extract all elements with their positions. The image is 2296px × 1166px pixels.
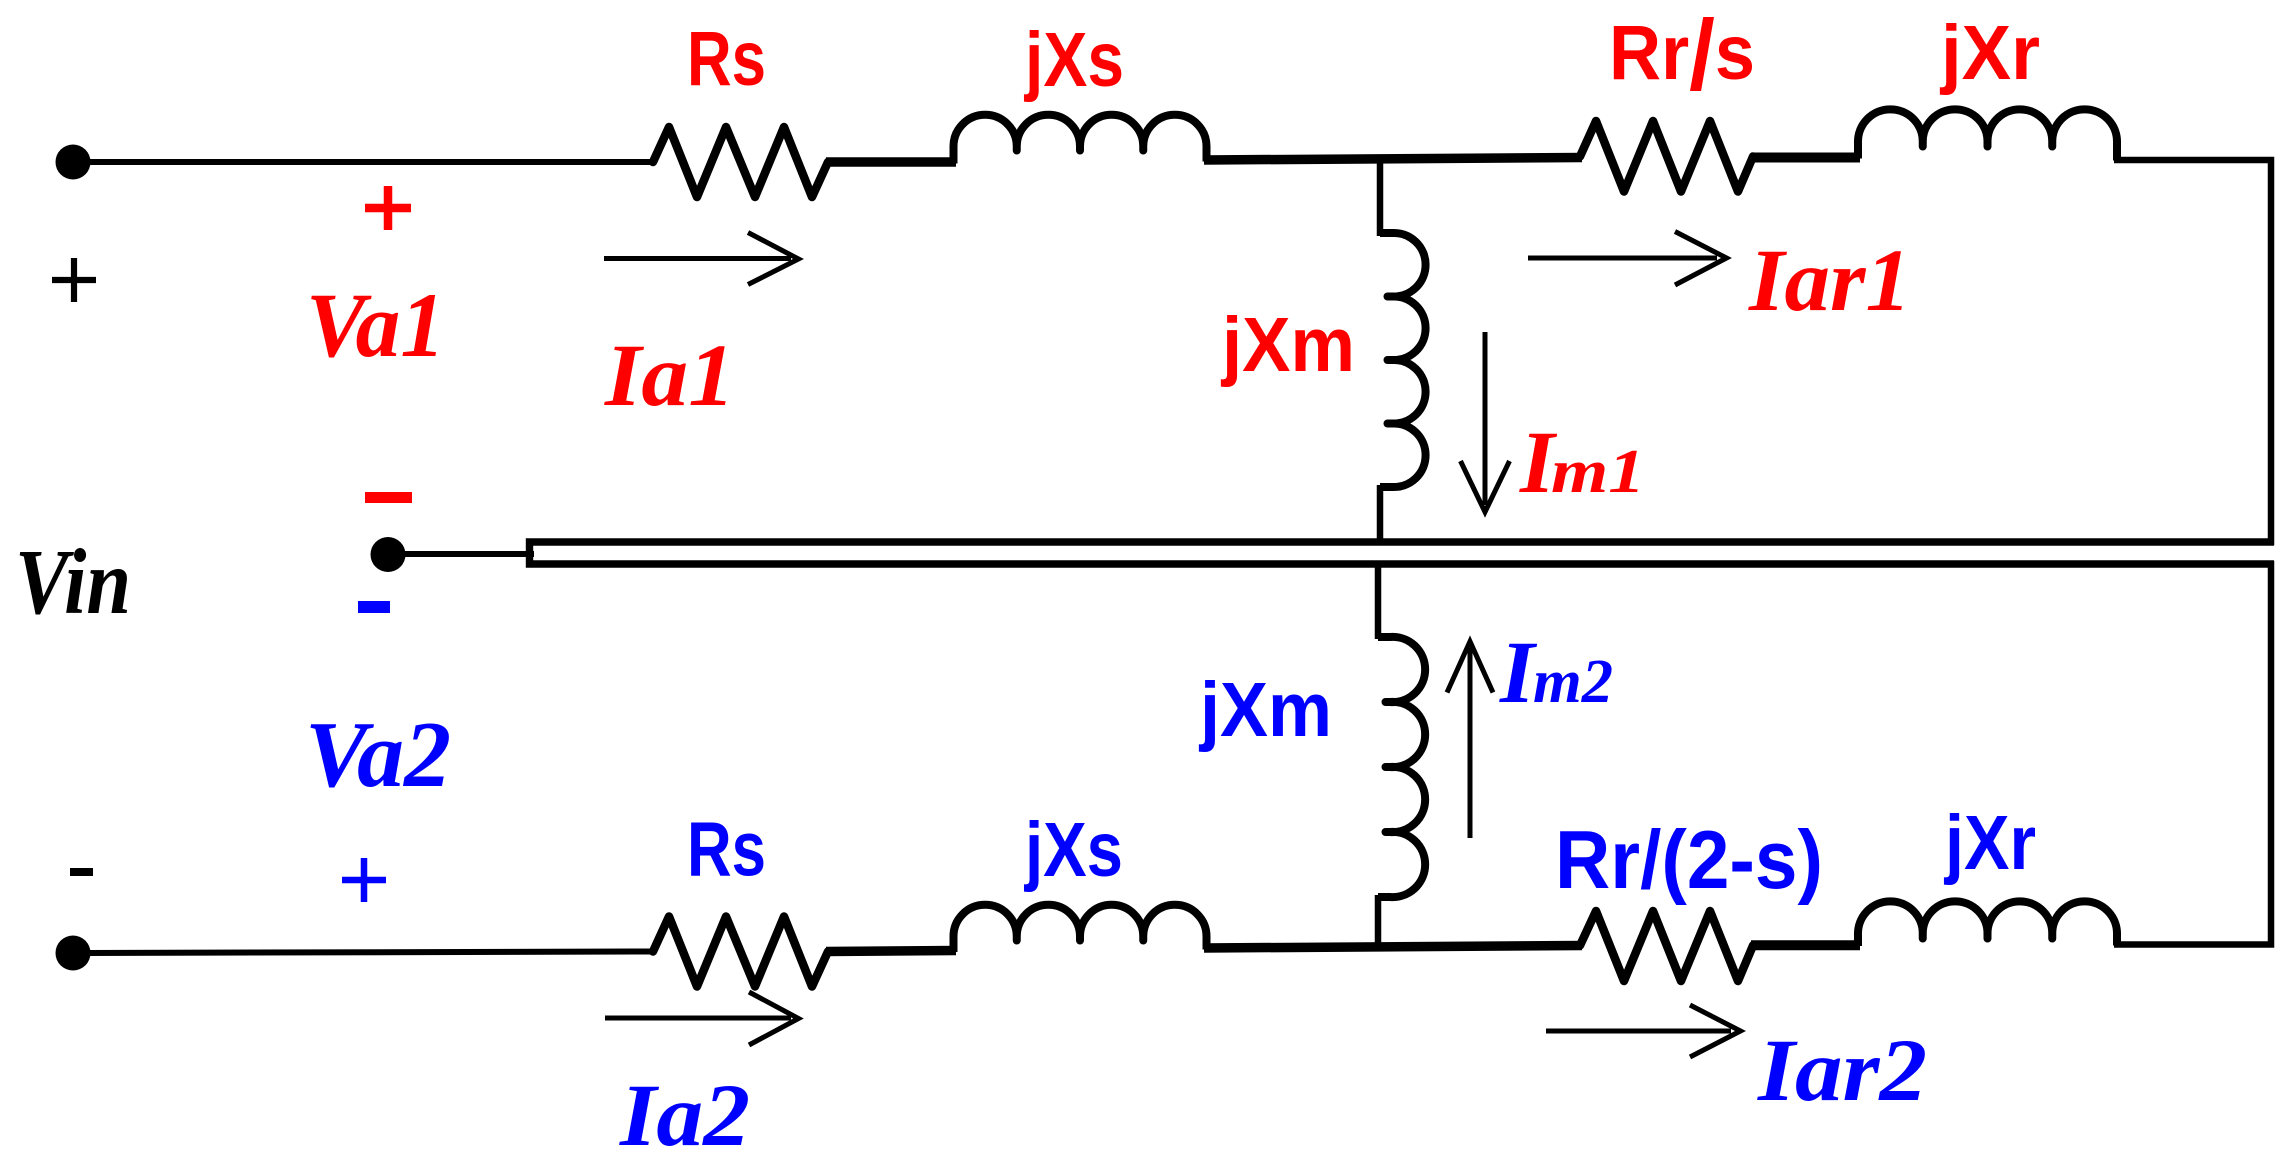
wire bottom-right corner up to bus <box>2114 561 2271 945</box>
polarity red minus (Va1) <box>365 492 412 503</box>
svg-text:Va1: Va1 <box>306 274 445 376</box>
inductor jXs (backward stator leakage) <box>953 905 1206 952</box>
wire Rs to jXs <box>826 157 956 167</box>
wire top-left <box>88 159 653 165</box>
inductor jXr (backward rotor leakage) <box>1858 901 2117 946</box>
inductor jXs (forward stator leakage) <box>953 115 1206 164</box>
svg-text:jXr: jXr <box>1939 10 2040 96</box>
svg-text:Ia1: Ia1 <box>604 327 735 425</box>
wire center dot to bus <box>399 551 534 557</box>
svg-text:Rs: Rs <box>687 807 766 893</box>
wire jXm upper stem <box>1377 159 1384 236</box>
polarity red plus (Va1) <box>365 186 411 230</box>
polarity black plus (Vin) <box>52 258 96 302</box>
wire bottom-left <box>88 952 653 954</box>
wire jXs to Rr/(2-s) with node at jXm tap <box>1204 946 1582 949</box>
wire Rr/(2-s) to jXr bottom <box>1751 940 1860 950</box>
wire jXs to Rr/s with node at jXm tap <box>1204 158 1582 161</box>
wire jXm upper stem lower <box>1377 485 1384 545</box>
label Im2 <box>1499 624 1613 722</box>
resistor Rs (backward stator) <box>653 917 828 987</box>
svg-text:m2: m2 <box>1533 648 1613 716</box>
svg-text:jXm: jXm <box>1220 302 1355 388</box>
svg-text:Ia2: Ia2 <box>619 1067 750 1165</box>
node Vin+ terminal dot <box>56 145 91 180</box>
arrow Iar2 current <box>1546 1005 1741 1057</box>
svg-text:m1: m1 <box>1551 438 1645 506</box>
svg-text:Iar2: Iar2 <box>1757 1022 1927 1120</box>
label Im1 <box>1519 414 1645 512</box>
svg-text:jXs: jXs <box>1023 807 1123 893</box>
svg-text:Iar1: Iar1 <box>1748 232 1911 330</box>
wire Rs to jXs bottom <box>826 951 956 952</box>
arrow Im1 current <box>1461 332 1510 512</box>
resistor Rr/(2-s) (backward rotor) <box>1580 911 1753 981</box>
arrow Ia1 current <box>604 233 799 285</box>
node Vin lower terminal dot <box>56 936 91 971</box>
svg-text:Rr/(2-s): Rr/(2-s) <box>1555 813 1823 906</box>
wire jXm lower stem lower <box>1375 895 1382 947</box>
svg-text:Vin: Vin <box>15 531 131 634</box>
polarity blue minus (Va2) <box>358 601 390 613</box>
svg-text:Rs: Rs <box>687 16 766 102</box>
arrow Im2 current <box>1447 642 1493 839</box>
svg-text:jXr: jXr <box>1943 800 2036 886</box>
wire middle bus bar (double line) <box>530 542 2275 564</box>
svg-text:jXm: jXm <box>1198 667 1332 753</box>
node Vin- center dot <box>371 537 406 572</box>
wire Rr/s to jXr <box>1751 153 1860 163</box>
wire jXm lower stem upper <box>1375 563 1382 639</box>
svg-text:Rr/s: Rr/s <box>1609 0 1755 110</box>
inductor jXm (backward magnetizing) <box>1378 637 1425 897</box>
svg-text:Va2: Va2 <box>305 703 451 807</box>
svg-text:jXs: jXs <box>1023 17 1124 103</box>
polarity blue plus (Va2) <box>342 858 386 902</box>
polarity black minus (Vin) <box>70 868 93 876</box>
arrow Iar1 current <box>1528 232 1727 286</box>
resistor Rs (forward stator) <box>653 127 828 197</box>
inductor jXm (forward magnetizing) <box>1380 233 1426 487</box>
wire top-right corner down to bus <box>2114 160 2271 545</box>
arrow Ia2 current <box>605 992 799 1045</box>
inductor jXr (forward rotor leakage) <box>1858 109 2117 160</box>
resistor Rr/s (forward rotor) <box>1580 121 1753 192</box>
